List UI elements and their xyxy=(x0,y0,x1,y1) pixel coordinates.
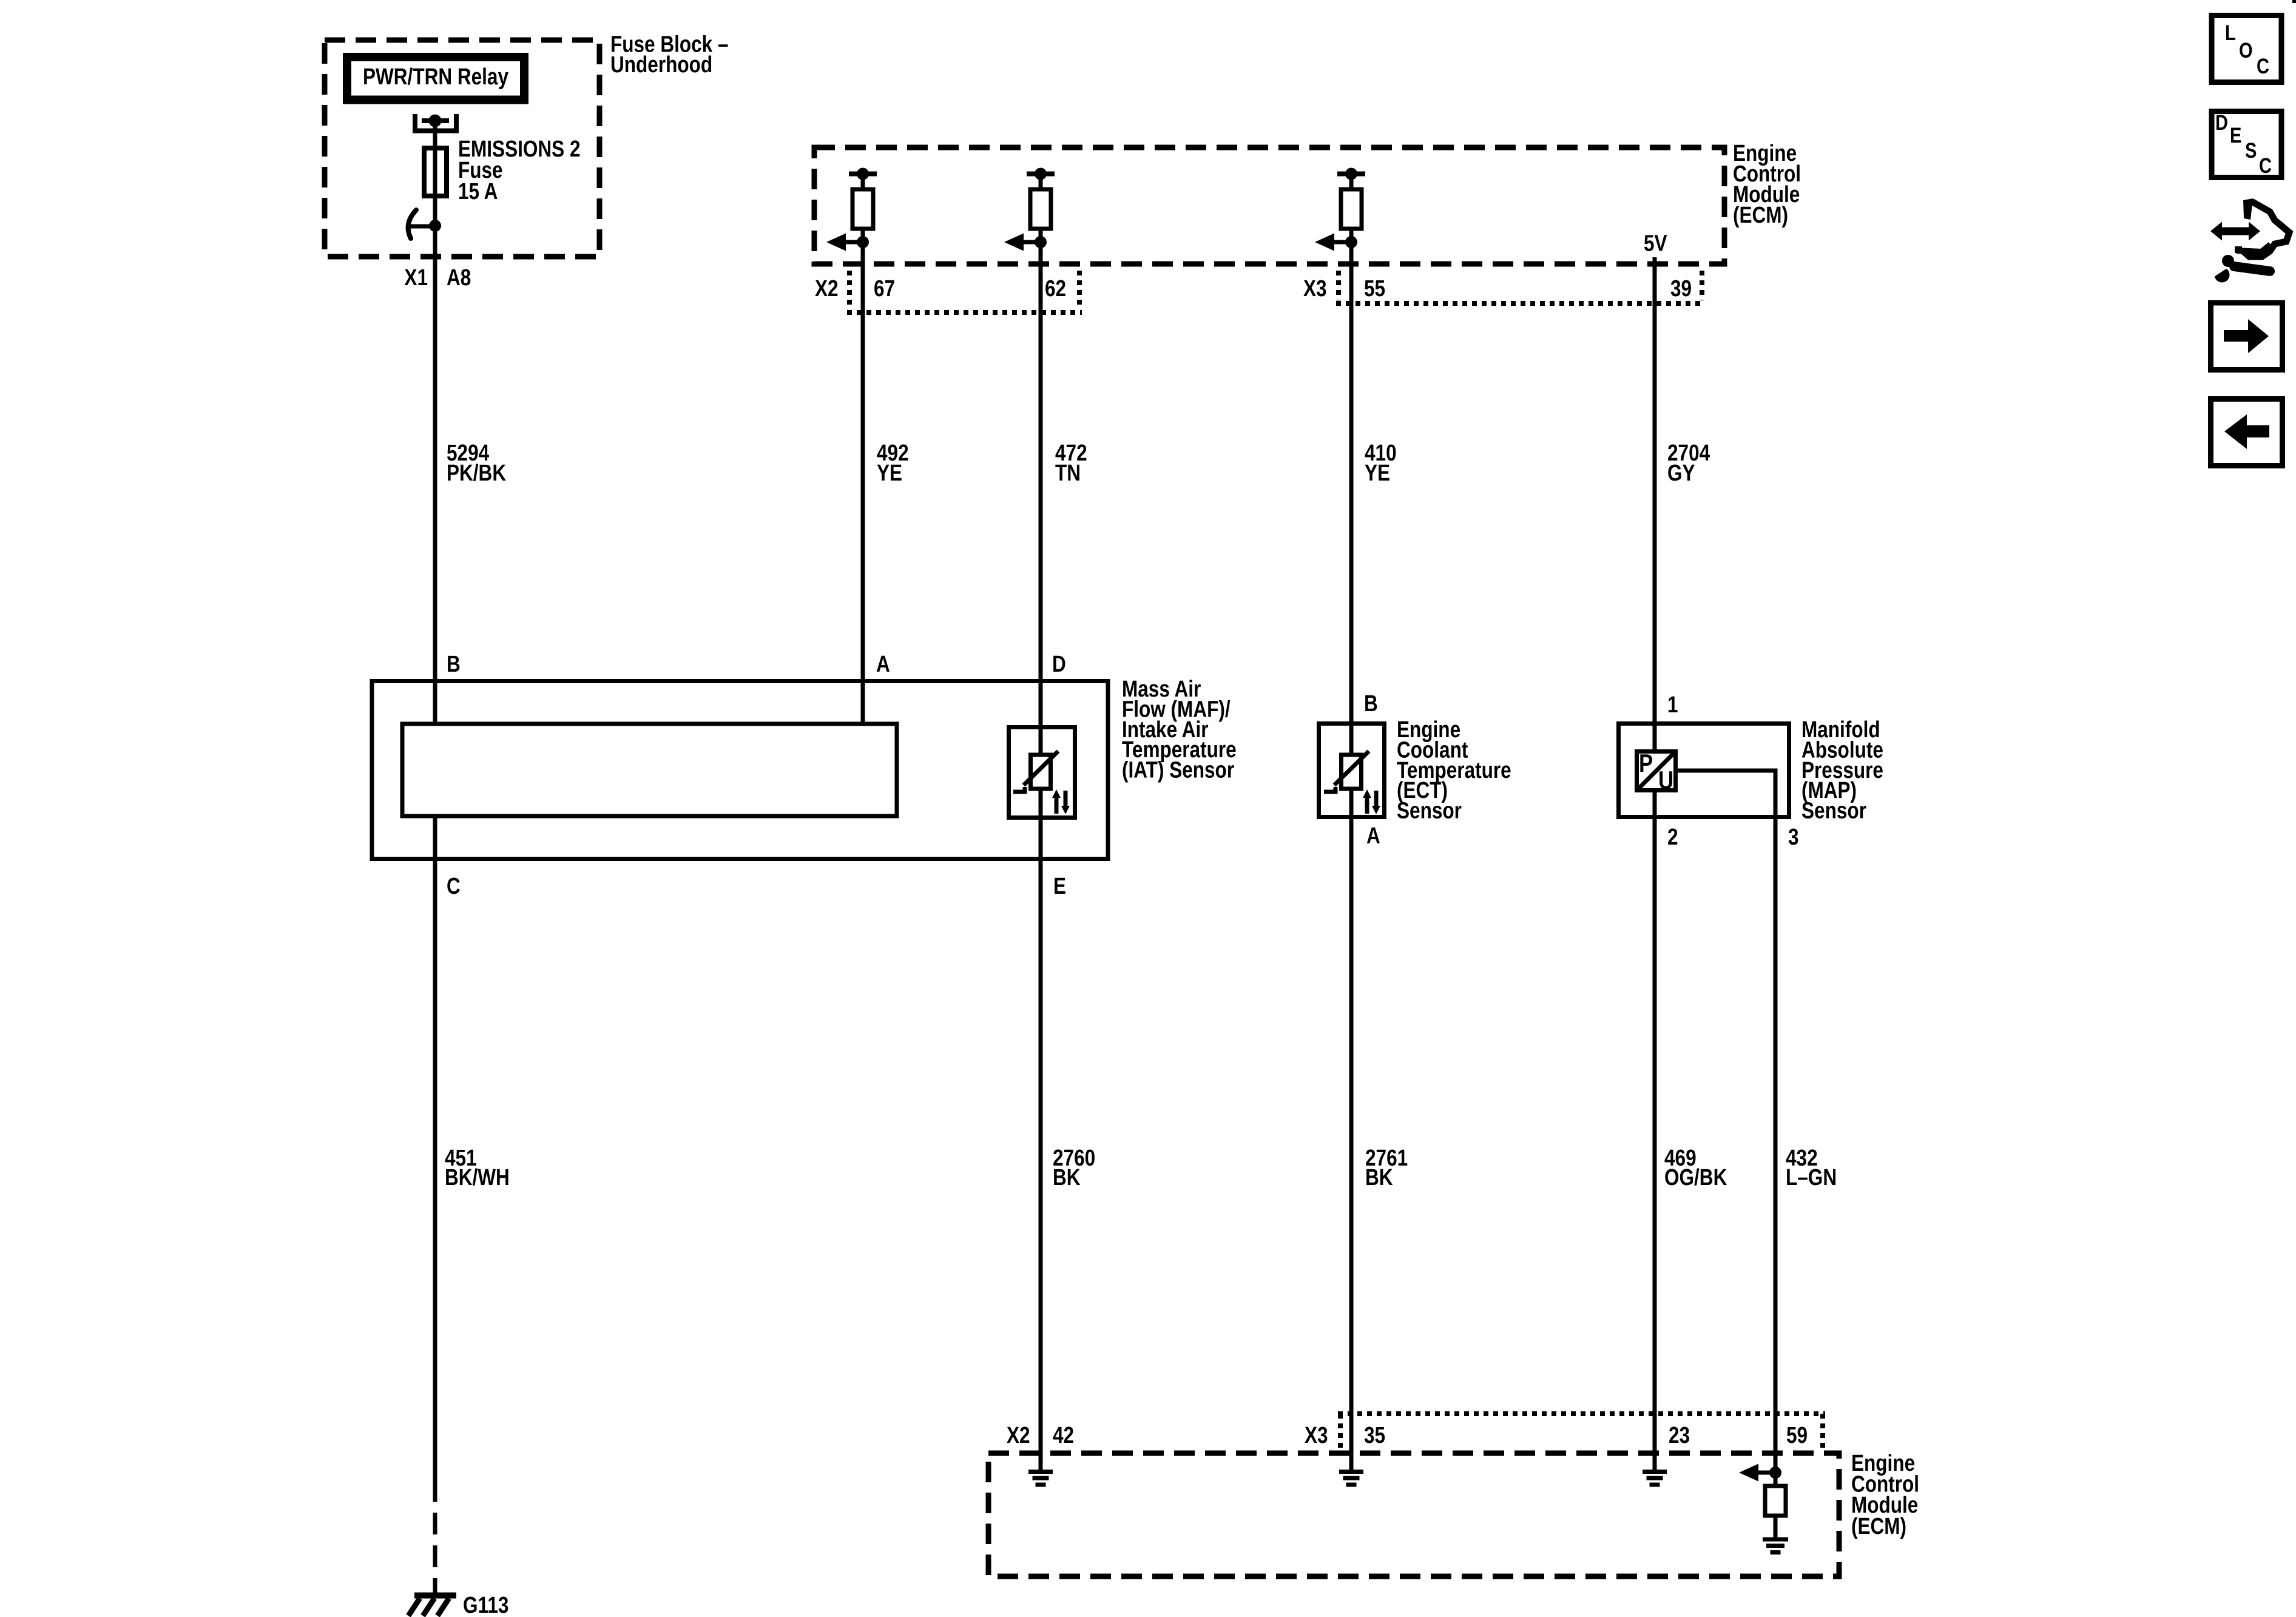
svg-text:Underhood: Underhood xyxy=(610,52,712,77)
svg-text:A: A xyxy=(1366,823,1380,848)
svg-text:L–GN: L–GN xyxy=(1786,1164,1837,1190)
svg-text:X3: X3 xyxy=(1303,275,1327,301)
terminal hook X1-A8 xyxy=(408,210,441,238)
svg-text:1: 1 xyxy=(1667,692,1678,717)
ECT sensor label xyxy=(1397,717,1511,823)
LOC nav box xyxy=(2212,16,2281,83)
svg-text:BK: BK xyxy=(1365,1164,1393,1190)
ECM bottom label xyxy=(1851,1450,1919,1539)
page corner mark xyxy=(2292,0,2296,3)
svg-text:5V: 5V xyxy=(1644,231,1667,256)
signal arrow pin 59 xyxy=(1739,1464,1781,1482)
svg-text:Sensor: Sensor xyxy=(1801,798,1866,823)
fuse label xyxy=(458,136,580,204)
wire label 2761 BK xyxy=(1365,1145,1408,1190)
svg-text:U: U xyxy=(1658,766,1673,795)
svg-text:2: 2 xyxy=(1667,824,1678,849)
svg-text:A: A xyxy=(876,651,890,677)
wire label 2704 GY xyxy=(1667,440,1710,485)
ground ECM X3 35 xyxy=(1339,1472,1363,1485)
wire label 472 TN xyxy=(1055,440,1087,485)
ground ECM 23 xyxy=(1643,1472,1667,1485)
svg-text:L: L xyxy=(2225,21,2236,44)
svg-text:D: D xyxy=(2215,110,2228,134)
svg-text:15 A: 15 A xyxy=(458,178,498,204)
svg-text:BK/WH: BK/WH xyxy=(445,1164,510,1190)
MAF pin letters C E xyxy=(447,873,1066,899)
PWR/TRN Relay label xyxy=(363,64,509,89)
svg-text:OG/BK: OG/BK xyxy=(1664,1164,1727,1190)
MAP sensor label xyxy=(1801,717,1883,823)
G113 label xyxy=(463,1592,508,1617)
ECM 59 internal resistor xyxy=(1765,1486,1786,1516)
MAF IAT sensor outer box xyxy=(372,681,1108,859)
connector X2 dotted box (top) xyxy=(847,271,1082,312)
svg-text:62: 62 xyxy=(1045,275,1066,301)
engine control module ECM top dashed box xyxy=(814,147,1724,264)
svg-text:(ECM): (ECM) xyxy=(1733,202,1788,228)
ECM pull-up resistor pin 67 xyxy=(849,168,877,243)
wire label 410 YE xyxy=(1365,440,1397,485)
connector label X1 A8 xyxy=(404,265,471,290)
5V supply label xyxy=(1644,231,1667,256)
svg-text:A8: A8 xyxy=(447,265,471,290)
fuse block label xyxy=(610,32,729,78)
ECT thermistor symbol xyxy=(1324,751,1380,814)
signal arrow pin 67 xyxy=(826,234,869,251)
wire label 492 YE xyxy=(877,440,909,485)
fuse EMISSIONS 2 15 A xyxy=(424,121,447,209)
IAT thermistor symbol xyxy=(1013,751,1070,814)
fuse block underhood dashed box xyxy=(325,40,599,257)
ECM pull-up resistor pin 55 xyxy=(1337,168,1365,243)
MAF sensor label xyxy=(1122,676,1237,783)
svg-text:3: 3 xyxy=(1788,824,1799,849)
ECT sensor box xyxy=(1319,724,1385,817)
svg-text:59: 59 xyxy=(1786,1422,1808,1448)
svg-text:X2: X2 xyxy=(1007,1422,1030,1448)
svg-text:X3: X3 xyxy=(1305,1422,1328,1448)
svg-text:B: B xyxy=(1364,690,1378,716)
svg-text:S: S xyxy=(2245,138,2257,162)
ECM top label xyxy=(1733,140,1801,228)
MAP sensor box xyxy=(1619,724,1789,817)
left arrow nav box xyxy=(2211,399,2283,466)
svg-text:42: 42 xyxy=(1053,1422,1074,1448)
MAP P/U transducer symbol xyxy=(1637,749,1676,795)
wire ECM 62 to IAT D-E to ECM X2 42 (472 TN / 2760 BK) xyxy=(1039,242,1043,1470)
ground ECM X2 42 xyxy=(1028,1472,1053,1485)
svg-text:PWR/TRN Relay: PWR/TRN Relay xyxy=(363,64,509,89)
ECT pin letters xyxy=(1364,690,1380,848)
svg-text:(IAT) Sensor: (IAT) Sensor xyxy=(1122,757,1234,783)
IAT thermistor box xyxy=(1009,727,1075,818)
relay PWR/TRN box xyxy=(347,57,524,100)
bottom connector pin labels xyxy=(1007,1422,1808,1448)
svg-text:X2: X2 xyxy=(815,275,839,301)
svg-text:GY: GY xyxy=(1667,460,1695,485)
wire MAF C to G113 (451 BK/WH) xyxy=(433,816,437,1593)
MAP pin numbers xyxy=(1667,692,1799,849)
svg-text:O: O xyxy=(2239,38,2253,62)
ground ECM 59 xyxy=(1763,1539,1788,1553)
relay contact clip xyxy=(415,114,456,131)
wire ECM 55 to ECT B-A to ECM X3 35 (410 YE / 2761 BK) xyxy=(1349,242,1354,1470)
MAF internal circuit rect xyxy=(402,724,897,816)
wire label 2760 BK xyxy=(1053,1145,1095,1190)
svg-text:YE: YE xyxy=(877,460,902,485)
ECM pull-up resistor pin 62 xyxy=(1027,168,1055,243)
svg-text:67: 67 xyxy=(874,275,895,301)
svg-text:TN: TN xyxy=(1055,460,1081,485)
svg-text:G113: G113 xyxy=(463,1592,508,1617)
svg-text:YE: YE xyxy=(1365,460,1390,485)
wire label 469 OG/BK xyxy=(1664,1145,1727,1190)
MAP output wire to pin 3 (432 L-GN) xyxy=(1676,771,1775,1473)
bottom connector dotted box xyxy=(1338,1414,1825,1451)
svg-text:E: E xyxy=(1053,873,1066,899)
svg-text:C: C xyxy=(2257,54,2269,78)
right arrow nav box xyxy=(2211,303,2283,370)
svg-text:X1: X1 xyxy=(404,265,428,290)
connector X3 dotted box (top) xyxy=(1336,271,1704,303)
svg-text:39: 39 xyxy=(1670,275,1692,301)
MAF pin letters B A D xyxy=(447,651,1066,677)
svg-text:C: C xyxy=(447,873,461,899)
wire label 451 BK/WH xyxy=(445,1145,510,1190)
DESC nav box xyxy=(2212,110,2281,177)
wire ECM 39 5V to MAP 1-2 to ECM 23 (2704 GY / 469 OG/BK) xyxy=(1653,257,1657,1470)
svg-text:23: 23 xyxy=(1669,1422,1690,1448)
svg-text:E: E xyxy=(2230,123,2241,147)
svg-text:55: 55 xyxy=(1364,275,1385,301)
svg-text:35: 35 xyxy=(1364,1422,1385,1448)
wire label 432 L-GN xyxy=(1786,1145,1837,1190)
signal arrow pin 55 xyxy=(1315,234,1357,251)
hand and wrench icon xyxy=(2207,198,2289,283)
svg-text:Sensor: Sensor xyxy=(1397,798,1462,823)
signal arrow pin 62 xyxy=(1004,234,1047,251)
svg-text:D: D xyxy=(1052,651,1066,677)
top connector pin labels xyxy=(815,275,1692,301)
svg-text:C: C xyxy=(2259,154,2272,177)
svg-text:PK/BK: PK/BK xyxy=(447,460,506,485)
engine control module ECM bottom dashed box xyxy=(988,1453,1839,1576)
wire ECM 67 to MAF pin A (492 YE) xyxy=(861,242,865,724)
svg-text:BK: BK xyxy=(1053,1164,1081,1190)
svg-text:P: P xyxy=(1639,749,1653,778)
wire fuse to MAF pin B (5294 PK/BK) xyxy=(433,198,437,724)
wire ECM 59 junction to ground xyxy=(1774,1473,1778,1538)
wire label 5294 PK/BK xyxy=(447,440,506,485)
svg-text:B: B xyxy=(447,651,461,677)
ground G113 chassis symbol xyxy=(408,1596,456,1616)
svg-text:(ECM): (ECM) xyxy=(1851,1513,1906,1539)
